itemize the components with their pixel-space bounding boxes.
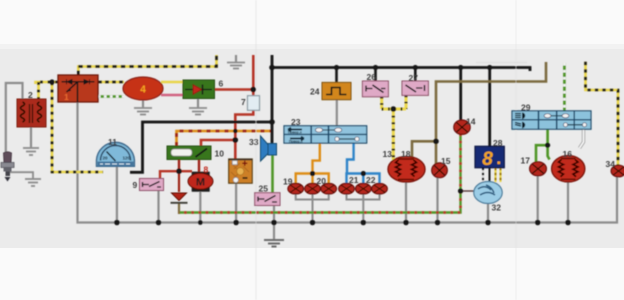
wire: lamp 17 stem to ground bus xyxy=(537,175,539,223)
turn lamp 20 xyxy=(321,183,337,194)
svg-text:M: M xyxy=(196,177,205,189)
wire: diode VD to green-red bus (olive) xyxy=(178,203,180,215)
relay 26 xyxy=(362,81,388,97)
svg-text:25: 25 xyxy=(259,184,269,194)
relay 25 xyxy=(255,193,280,206)
turn lamp 22 xyxy=(372,183,388,194)
wire: rectifier 6 ground stem xyxy=(197,99,199,109)
diode VD (below node B) xyxy=(171,193,188,203)
wire: fuse 7 to battery 12 (red) xyxy=(235,110,253,159)
svg-text:27: 27 xyxy=(409,73,419,83)
wire: speedometer 11 stem to ground bus xyxy=(116,166,118,223)
svg-text:7: 7 xyxy=(241,97,246,107)
wire: alternator 4 ground stem xyxy=(142,100,144,108)
svg-text:28: 28 xyxy=(493,138,503,148)
ground symbol (bottom centre, main bus) xyxy=(264,240,284,247)
main switch (fuse box) 10 xyxy=(167,146,211,160)
svg-text:9: 9 xyxy=(133,180,138,190)
wire: turn switch 23 to right lamps (blue) xyxy=(347,143,354,174)
motor 8 xyxy=(188,172,213,192)
wire: orange-dashed ignition-switched feed (10 to horn bus) xyxy=(177,131,272,146)
ground symbol (below coil 2) xyxy=(23,148,39,155)
wire: black stem to display 28 xyxy=(488,68,491,147)
svg-text:19: 19 xyxy=(283,177,293,187)
wire: turn switch 23 to left lamps (orange) xyxy=(313,143,320,174)
wire: relay 25 stem to ground bus and bottom ground xyxy=(273,206,275,241)
svg-text:15: 15 xyxy=(441,156,451,166)
turn lamp 21b xyxy=(356,183,372,194)
wire: black stem bus to relay 27 xyxy=(414,68,417,82)
wire: switch 1 to alternator 4 (black dashed, upper) xyxy=(98,81,124,83)
artifact: faint scan fold lines xyxy=(255,0,257,300)
svg-text:22: 22 xyxy=(366,175,376,185)
wire: left lamp group lower bracket xyxy=(296,193,329,200)
svg-text:33: 33 xyxy=(249,137,259,147)
horn 33 xyxy=(261,136,277,161)
wire: yellow dashed junction bar xyxy=(382,108,406,111)
wire: switch 10 left output down to node B (dark red) xyxy=(178,160,180,172)
svg-text:Повор.п: Повор.п xyxy=(289,139,303,143)
svg-text:1: 1 xyxy=(64,92,69,102)
turn lamp 19 xyxy=(288,183,304,194)
wire: black stem to lamp 14 xyxy=(459,68,462,122)
svg-text:11: 11 xyxy=(108,137,117,147)
svg-text:8: 8 xyxy=(482,149,493,170)
svg-text:34: 34 xyxy=(606,159,616,169)
svg-text:6: 6 xyxy=(219,79,224,89)
headlamp 16 xyxy=(552,156,585,182)
wire: brown headlamp feed (bus to 13/18 and 15) xyxy=(436,62,546,141)
svg-text:4: 4 xyxy=(140,85,146,96)
relay 9 xyxy=(140,179,164,191)
wire: spark plug side electrode to ground xyxy=(9,172,33,179)
wire: flasher 24 to switch 23 (grey stem) xyxy=(336,100,338,126)
svg-text:10: 10 xyxy=(215,149,225,159)
ignition coil 2 xyxy=(17,99,46,127)
svg-text:2: 2 xyxy=(28,90,33,100)
wire: black-yellow dashed ignition feed (switch 1 top to engine stop) xyxy=(78,55,216,75)
wire: node B to relay 9 (red) xyxy=(160,171,179,178)
svg-text:17: 17 xyxy=(521,156,531,166)
wire: node B to motor 8 (red) xyxy=(179,170,192,172)
svg-text:13: 13 xyxy=(383,149,393,159)
wire: switch 10 right output to motor 8 (red) xyxy=(198,160,200,173)
fuse 7 xyxy=(248,96,260,111)
tail lamp 34 xyxy=(611,165,624,177)
sensor 32 xyxy=(474,182,502,204)
wire: lamp 16 stem to ground bus xyxy=(567,180,569,223)
wire: alternator 4 to rectifier 6 (pink) xyxy=(161,94,184,96)
svg-text:26: 26 xyxy=(367,72,377,82)
turn lamp 19b xyxy=(305,183,321,194)
battery 12 xyxy=(229,159,253,183)
indicator lamp 14 xyxy=(454,120,470,134)
light switch 29 xyxy=(512,111,591,129)
svg-text:20: 20 xyxy=(317,176,327,186)
svg-text:32: 32 xyxy=(492,203,502,213)
wire: tap to sensor 32 (thin dark) xyxy=(461,190,476,192)
ignition switch 1 xyxy=(58,75,98,102)
speedometer 11 xyxy=(97,142,135,166)
ground symbol (below rectifier 6) xyxy=(189,108,207,115)
turn lamp 21 xyxy=(339,183,355,194)
svg-text:20: 20 xyxy=(103,156,109,161)
wire: switch 29 green output to lamps 17 and 16 xyxy=(536,129,548,162)
wire: green-red dashed from lamp 14 to bus xyxy=(179,134,461,213)
wire: switch 1 to alternator 4 (green-white dashed, lower) xyxy=(98,95,124,97)
wire: red supply bus from rectifier 6 to node A xyxy=(214,88,253,91)
relay 27 xyxy=(402,81,428,95)
wire: node B down to diode VD xyxy=(178,171,180,192)
wire: black top bus horizontal xyxy=(272,68,530,72)
wire: right lamp group lower bracket xyxy=(347,193,380,200)
flasher relay 24 xyxy=(322,82,351,99)
spark plug 3 xyxy=(1,152,14,182)
wire: sensor 32 stem to ground bus xyxy=(487,202,489,223)
wire: relay 26 output (yellow dashed) xyxy=(380,97,383,109)
headlamp 13/18 xyxy=(388,156,425,182)
svg-text:18: 18 xyxy=(401,149,411,159)
svg-text:14: 14 xyxy=(466,117,476,127)
wire: branch to main switch 10 (red) xyxy=(201,140,235,147)
stop lamp 15 xyxy=(432,163,448,178)
svg-text:23: 23 xyxy=(291,117,301,127)
alternator 4 xyxy=(123,77,163,100)
wire: yellow dashed down to headlamp 13 xyxy=(392,109,395,160)
wire: top middle ground stem xyxy=(235,55,237,63)
wire: black feed bus vertical (to horn 33) xyxy=(271,55,274,145)
wire: black stem bus to flasher 24 xyxy=(335,68,338,83)
wire: relay 27 output (yellow dashed) xyxy=(405,95,408,109)
wire: green-white dashed feed to light switch 29 xyxy=(563,63,566,111)
wire: yellow-black dashed from switch 1 to coil 2 and speedometer 11 xyxy=(36,82,59,84)
rectifier 6 xyxy=(183,80,215,99)
wire: red stub above node A xyxy=(252,55,255,96)
ground symbol (below alternator 4) xyxy=(134,108,152,115)
digital display 28 xyxy=(475,146,504,170)
svg-text:21: 21 xyxy=(349,175,359,185)
wire: battery stem to ground bus xyxy=(235,183,237,223)
city lamp 17 xyxy=(530,162,547,176)
turn signal switch 23 xyxy=(284,126,367,144)
svg-text:Повор.л: Повор.л xyxy=(288,131,302,135)
wire: alternator 4 to rectifier 6 (yellow) xyxy=(161,81,184,83)
wire: motor 8 stem to ground bus xyxy=(199,192,201,223)
wire: coil 2 ground stem xyxy=(30,127,32,148)
svg-text:16: 16 xyxy=(563,149,573,159)
svg-text:120: 120 xyxy=(123,156,131,161)
ground symbol (spark plug) xyxy=(25,179,41,186)
wire: lamp 15 stem to ground bus xyxy=(436,176,438,223)
svg-text:8: 8 xyxy=(204,165,209,175)
wire: headlamp 13/18 stem to ground bus xyxy=(405,180,407,223)
wire: high-voltage lead coil 2 to spark plug 3 xyxy=(6,83,23,157)
svg-text:29: 29 xyxy=(521,103,531,113)
ground symbol (top middle) xyxy=(227,63,245,69)
svg-text:24: 24 xyxy=(310,87,320,97)
wire: black bus to speedometer 11 xyxy=(130,122,272,172)
wire: black-yellow dashed to tail lamp 34 xyxy=(586,62,619,166)
wire: relay 9 stem to ground bus xyxy=(157,191,159,223)
wire: horn 33 to relay 25 (green) xyxy=(271,154,274,193)
wire: main ground bus (grey horizontal bottom) xyxy=(78,102,618,223)
wire: display 28 to sensor 32 stubs xyxy=(482,168,484,182)
junction node dots xyxy=(49,65,570,226)
wire: switch 29 white output to lamp 16 xyxy=(580,129,584,148)
wire: black stem bus to relay 26 xyxy=(374,68,377,82)
